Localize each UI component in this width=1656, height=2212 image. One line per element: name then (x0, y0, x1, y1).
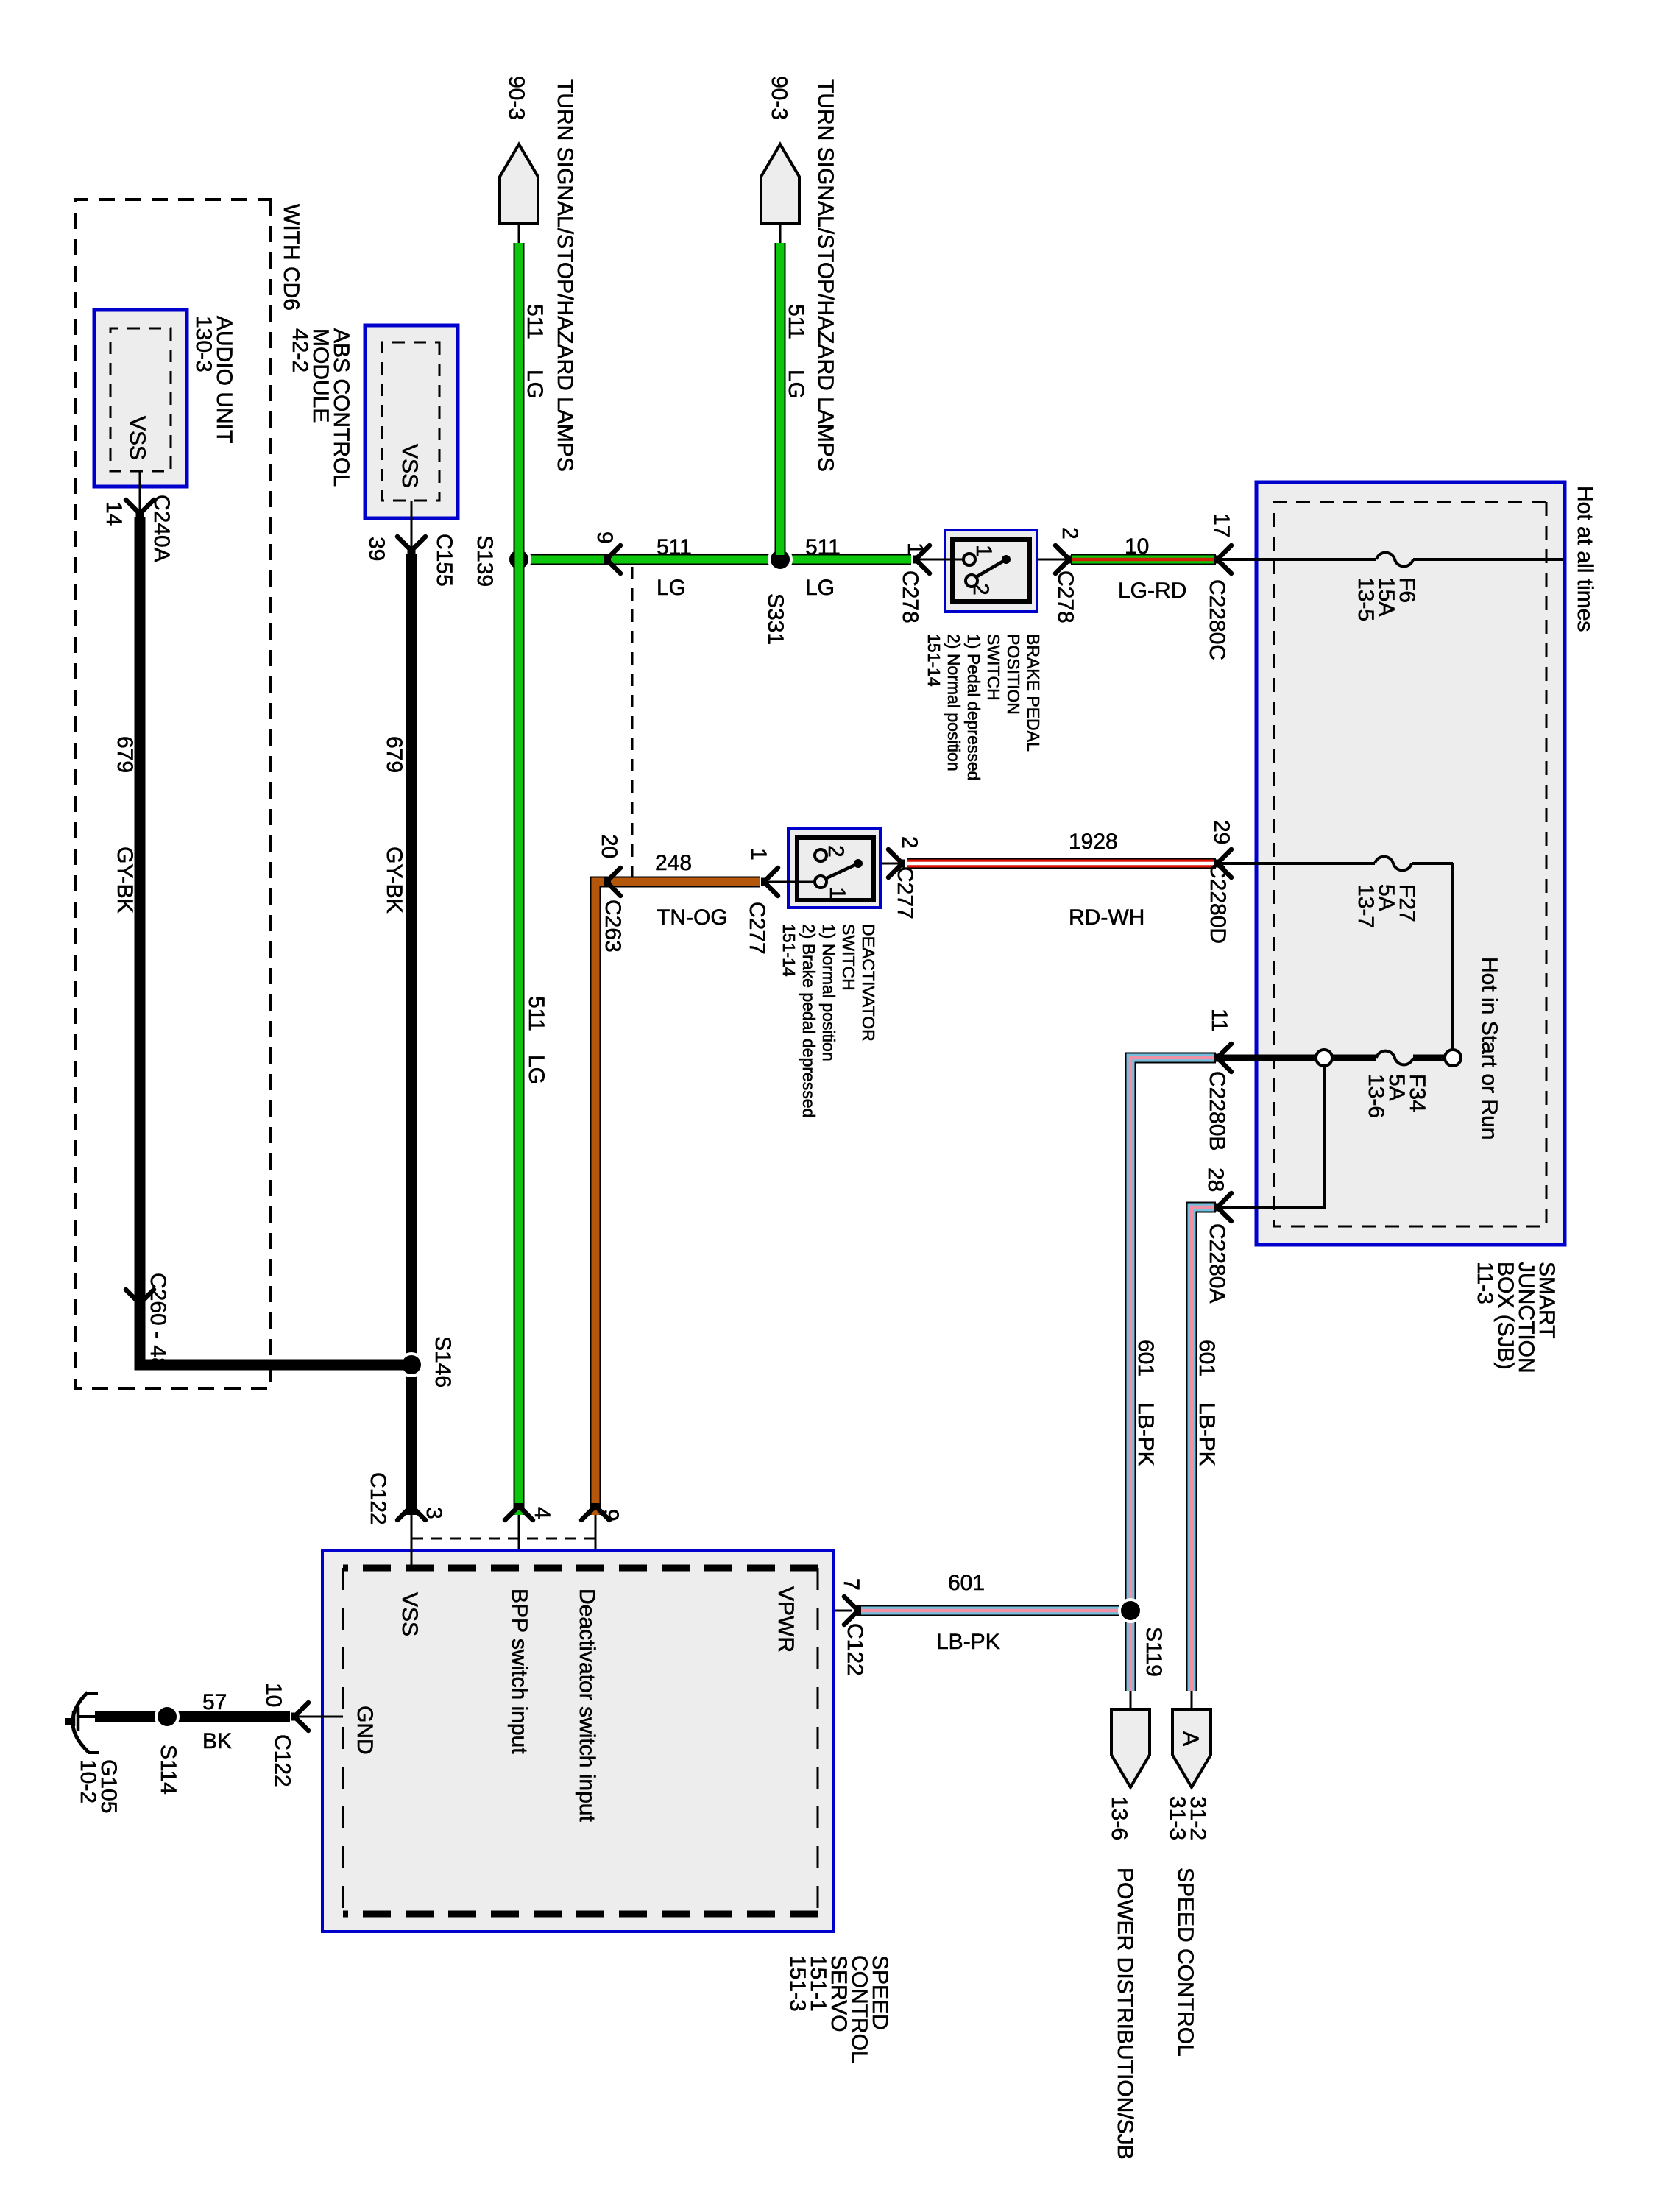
svg-text:VPWR: VPWR (774, 1586, 798, 1653)
wire 57 BK (GND to G105) (95, 1711, 290, 1722)
wire: ABS VSS pin lead (411, 501, 413, 546)
wire: hot in start or run bus (1412, 863, 1453, 1050)
svg-text:31-3: 31-3 (1165, 1796, 1189, 1840)
svg-text:GY-BK: GY-BK (382, 847, 406, 914)
svg-text:4: 4 (530, 1507, 554, 1519)
wire 511 LG to S331 (775, 243, 786, 555)
label: AUDIO UNIT 130-3 (191, 316, 236, 443)
dashed connector plane C122 (411, 1538, 595, 1540)
wire: VPWR pin lead (818, 1610, 852, 1612)
wire 248 TN-OG (deactivator to servo) (595, 882, 760, 1515)
svg-text:BK: BK (202, 1729, 232, 1753)
junction S139 (473, 535, 531, 587)
svg-text:LB-PK: LB-PK (1195, 1402, 1219, 1466)
turn signal chevron connector 2 (90-3) (761, 144, 799, 244)
connector C122 pin 10 arrow (261, 1683, 308, 1787)
bus terminal circle at F34 top (1445, 1050, 1461, 1066)
wire: servo GND pin lead (296, 1716, 343, 1718)
svg-text:601: 601 (1133, 1340, 1158, 1377)
svg-text:VSS: VSS (125, 416, 149, 460)
svg-text:GY-BK: GY-BK (113, 847, 137, 914)
label: SPEED CONTROL SERVO 151-1 151-3 (785, 1955, 892, 2063)
svg-text:S119: S119 (1142, 1627, 1166, 1677)
svg-text:POWER DISTRIBUTION/SJB: POWER DISTRIBUTION/SJB (1113, 1868, 1137, 2160)
WITH CD6 dashed box (75, 199, 271, 1388)
wire 679 GY-BK (ABS to servo VSS) (406, 554, 417, 1515)
wire 601 LB-PK (SJB pin 11 to S119 and chevron 13-6) (1130, 1058, 1216, 1691)
svg-text:C240A: C240A (149, 495, 174, 562)
svg-text:17: 17 (1209, 513, 1234, 537)
svg-text:S331: S331 (763, 593, 788, 645)
wire 1928 RD-WH (SJB pin 29 to deactivator switch) (907, 858, 1216, 869)
svg-text:13-7: 13-7 (1354, 884, 1378, 928)
svg-text:10: 10 (1125, 534, 1149, 559)
wire: deactivator input pin lead (595, 1515, 597, 1569)
label: SMART JUNCTION BOX (SJB) 11-3 (1473, 1262, 1559, 1374)
chevron connector 13-6 (power distribution) (1111, 1691, 1150, 1787)
bus terminal circle on F34 wire (1316, 1050, 1332, 1066)
svg-text:RD-WH: RD-WH (1069, 905, 1144, 930)
svg-text:BPP switch input: BPP switch input (507, 1589, 531, 1754)
svg-text:POSITION: POSITION (1004, 634, 1023, 715)
wire: deactivator pin 2 lead (861, 863, 899, 865)
wire: brake switch pin 2 lead (1010, 559, 1067, 561)
fuse F27 5A (1375, 857, 1412, 871)
svg-text:511: 511 (524, 996, 548, 1031)
svg-text:SWITCH: SWITCH (984, 634, 1003, 701)
brake pedal position switch (945, 530, 1037, 612)
svg-text:511: 511 (784, 304, 808, 339)
svg-text:10: 10 (261, 1683, 286, 1707)
svg-text:1: 1 (825, 887, 849, 900)
speed control servo box (322, 1550, 833, 1932)
svg-text:3: 3 (422, 1507, 446, 1519)
svg-text:C122: C122 (366, 1472, 390, 1525)
svg-text:VSS: VSS (397, 1592, 422, 1636)
wire 601 LB-PK (S119 to servo VPWR) (857, 1605, 1130, 1616)
svg-text:Deactivator switch input: Deactivator switch input (575, 1589, 599, 1822)
svg-text:2: 2 (969, 583, 993, 596)
wire 10 LG-RD (SJB pin 17 to C278) (1071, 554, 1216, 565)
svg-text:151-14: 151-14 (924, 634, 944, 687)
junction S114 (155, 1704, 180, 1795)
svg-text:C2280A: C2280A (1205, 1223, 1229, 1303)
label: ABS CONTROL MODULE 42-2 (288, 328, 353, 487)
svg-text:28: 28 (1203, 1167, 1228, 1192)
wire 511 LG vertical (C278 to S331 to S139) (519, 554, 911, 565)
svg-text:LG: LG (784, 370, 808, 399)
svg-text:11: 11 (1207, 1008, 1231, 1031)
svg-text:SWITCH: SWITCH (839, 924, 858, 991)
svg-text:151-3: 151-3 (785, 1955, 810, 2012)
svg-text:LG-RD: LG-RD (1118, 579, 1186, 603)
label: G105 10-2 (76, 1759, 121, 1813)
wire: BPP pin lead (518, 1515, 520, 1569)
svg-text:511: 511 (805, 535, 841, 559)
label: 31-2 31-3 (1165, 1796, 1210, 1840)
svg-text:29: 29 (1209, 820, 1234, 844)
svg-text:C122: C122 (270, 1734, 294, 1787)
connector C278 pin 1 arrow (898, 543, 930, 623)
wire: F6 feed inside SJB (1220, 558, 1563, 561)
svg-text:DEACTIVATOR: DEACTIVATOR (859, 924, 878, 1042)
chevron connector A (speed control) (1172, 1691, 1211, 1787)
svg-text:7: 7 (839, 1578, 863, 1591)
wire: brake switch pin 1 lead (918, 559, 963, 561)
svg-text:S139: S139 (473, 535, 497, 587)
wire: audio VSS pin lead (139, 471, 141, 509)
junction S119 (1118, 1598, 1143, 1623)
smart junction box (SJB) (1256, 482, 1565, 1245)
svg-text:13-6: 13-6 (1364, 1074, 1388, 1118)
SJB pin 29 connector arrow (1206, 820, 1234, 944)
wire: F27 to pin 29 (1220, 862, 1375, 865)
dashed connector plane C263 (631, 567, 634, 882)
svg-text:42-2: 42-2 (288, 328, 312, 372)
svg-text:601: 601 (1195, 1340, 1219, 1377)
svg-text:LB-PK: LB-PK (936, 1630, 1000, 1654)
svg-text:511: 511 (523, 304, 547, 339)
turn signal chevron connector 1 (90-3) (500, 144, 538, 244)
svg-text:10-2: 10-2 (76, 1759, 100, 1803)
svg-text:TURN SIGNAL/STOP/HAZARD LAMPS: TURN SIGNAL/STOP/HAZARD LAMPS (813, 79, 838, 472)
svg-text:LG: LG (523, 370, 547, 399)
svg-text:TURN SIGNAL/STOP/HAZARD LAMPS: TURN SIGNAL/STOP/HAZARD LAMPS (553, 79, 577, 472)
svg-text:A: A (1178, 1731, 1203, 1746)
svg-text:601: 601 (948, 1571, 985, 1595)
svg-text:1) Pedal depressed: 1) Pedal depressed (964, 634, 983, 780)
svg-text:C277: C277 (893, 866, 917, 919)
svg-text:C278: C278 (898, 570, 922, 623)
svg-text:13-6: 13-6 (1107, 1796, 1131, 1840)
svg-text:90-3: 90-3 (767, 76, 791, 120)
SJB pin 17 connector arrow (1205, 513, 1234, 660)
wire: deactivator pin 1 lead (767, 881, 814, 883)
svg-text:679: 679 (382, 736, 406, 773)
connector C155 pin 39 arrow (364, 534, 456, 587)
svg-text:14: 14 (102, 501, 126, 526)
connector C278 pin 2 arrow (1053, 527, 1082, 623)
label: DEACTIVATOR SWITCH notes (779, 924, 878, 1117)
wire: servo VSS pin lead (411, 1515, 413, 1569)
svg-text:Hot at all times: Hot at all times (1573, 486, 1597, 632)
svg-text:248: 248 (655, 851, 692, 875)
ground G105 (65, 1692, 99, 1753)
svg-text:2: 2 (897, 836, 921, 849)
svg-text:511: 511 (657, 535, 692, 559)
servo VSS pin arrow (366, 1472, 446, 1525)
svg-text:TN-OG: TN-OG (657, 905, 728, 930)
connector C260 pin 48 arrow (126, 1273, 170, 1370)
connector C277 pin 1 arrow (745, 848, 778, 955)
label: fuse F6 15A 13-5 (1354, 577, 1419, 621)
svg-text:13-5: 13-5 (1354, 577, 1378, 621)
svg-text:Hot in Start or Run: Hot in Start or Run (1477, 957, 1501, 1139)
svg-text:VSS: VSS (397, 444, 422, 488)
svg-text:LG: LG (805, 576, 835, 600)
label: BRAKE PEDAL POSITION SWITCH notes (924, 634, 1043, 780)
wire: F34 thick wire (1220, 1055, 1445, 1061)
ABS control module box (365, 325, 458, 518)
svg-text:S146: S146 (431, 1336, 455, 1388)
svg-text:9: 9 (592, 531, 617, 544)
svg-text:2: 2 (1058, 527, 1082, 540)
svg-text:C122: C122 (843, 1623, 867, 1676)
svg-text:LG: LG (657, 576, 686, 600)
wire 601 LB-PK (SJB pin 28 to chevron A) (1192, 1207, 1216, 1691)
deactivator switch (788, 829, 880, 908)
svg-text:2) Normal position: 2) Normal position (944, 634, 963, 771)
servo BPP pin arrow (505, 1503, 554, 1520)
fuse F34 5A (1376, 1051, 1413, 1065)
svg-text:C278: C278 (1053, 570, 1078, 623)
svg-text:1) Normal position: 1) Normal position (819, 924, 838, 1061)
svg-text:C260 - 48: C260 - 48 (146, 1273, 170, 1370)
svg-text:S114: S114 (156, 1745, 180, 1795)
svg-text:WITH CD6: WITH CD6 (279, 204, 303, 311)
wire: branch to pin 28 (1220, 1066, 1324, 1207)
svg-text:130-3: 130-3 (191, 316, 216, 372)
servo deactivator pin arrow (581, 1503, 623, 1522)
svg-text:9: 9 (598, 1509, 623, 1522)
connector C240A pin 14 arrow (102, 495, 174, 562)
svg-text:90-3: 90-3 (504, 76, 528, 120)
svg-text:57: 57 (202, 1690, 227, 1714)
svg-text:1: 1 (972, 545, 996, 557)
svg-text:LG: LG (524, 1055, 548, 1084)
connector C263 pin 9 arrow (592, 531, 620, 573)
svg-text:2: 2 (824, 845, 848, 858)
svg-text:1928: 1928 (1069, 830, 1118, 854)
svg-text:1: 1 (903, 543, 927, 555)
wire 511 LG main (chevron to servo BPP) (514, 243, 525, 1515)
svg-text:C263: C263 (601, 900, 625, 953)
svg-text:11-3: 11-3 (1473, 1262, 1497, 1304)
fuse F6 15A (1376, 553, 1413, 567)
label: fuse F27 5A 13-7 (1354, 884, 1419, 928)
junction S331 (763, 547, 793, 645)
svg-text:C2280D: C2280D (1206, 863, 1230, 944)
svg-text:2) Brake pedal depressed: 2) Brake pedal depressed (799, 924, 818, 1117)
svg-text:GND: GND (353, 1706, 377, 1755)
svg-text:C2280B: C2280B (1205, 1071, 1229, 1151)
junction S146 (399, 1336, 455, 1388)
svg-text:C155: C155 (432, 534, 456, 587)
svg-text:BRAKE PEDAL: BRAKE PEDAL (1024, 634, 1043, 752)
svg-text:SPEED CONTROL: SPEED CONTROL (1173, 1868, 1197, 2057)
svg-text:20: 20 (597, 834, 621, 858)
svg-text:LB-PK: LB-PK (1133, 1402, 1158, 1466)
SJB pin 28 connector arrow (1203, 1167, 1231, 1303)
connector C277 pin 2 arrow (888, 836, 921, 919)
svg-text:C277: C277 (745, 902, 769, 955)
servo VPWR pin arrow (839, 1578, 867, 1676)
svg-text:C2280C: C2280C (1205, 579, 1229, 660)
svg-text:151-14: 151-14 (779, 924, 799, 977)
svg-text:39: 39 (364, 537, 389, 561)
wire 679 GY-BK (audio to S146) (140, 517, 407, 1365)
SJB pin 11 connector arrow (1205, 1008, 1231, 1151)
audio unit box (94, 310, 187, 487)
svg-text:679: 679 (113, 736, 137, 773)
label: fuse F34 5A 13-6 (1364, 1074, 1429, 1118)
svg-text:1: 1 (746, 848, 771, 861)
connector C263 pin 20 arrow (597, 834, 625, 953)
